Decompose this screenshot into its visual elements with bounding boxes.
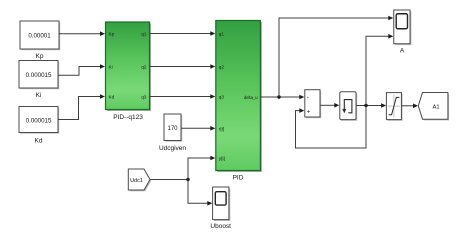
constant block Kp value 0.00001 <box>20 21 60 50</box>
svg-text:-: - <box>307 96 309 102</box>
svg-text:0.000015: 0.000015 <box>26 117 52 124</box>
svg-text:Kp: Kp <box>36 53 44 60</box>
scope Uboost <box>213 187 231 221</box>
svg-text:r[t]: r[t] <box>219 127 224 132</box>
svg-text:q1: q1 <box>141 32 147 37</box>
constant block Kd value 0.000015 <box>19 107 59 134</box>
svg-text:170: 170 <box>167 126 178 132</box>
svg-text:Ki: Ki <box>109 65 113 70</box>
constant block Udcgiven value 170 <box>164 114 182 142</box>
svg-text:A: A <box>400 48 405 55</box>
wire q1 to PID q1 input <box>150 31 216 36</box>
svg-text:Udcgiven: Udcgiven <box>159 145 186 152</box>
memory block (loop icon) <box>340 92 357 121</box>
svg-text:Kd: Kd <box>35 138 43 145</box>
from tag Udc1 <box>128 169 151 191</box>
subsystem PID--q123 <box>106 22 152 111</box>
goto tag A1 <box>418 93 449 121</box>
svg-text:Ki: Ki <box>36 92 42 99</box>
junction Udc1 node <box>186 178 189 181</box>
svg-text:q2: q2 <box>141 65 147 70</box>
svg-text:0.000015: 0.000015 <box>26 72 52 79</box>
wire memory block to saturation <box>356 103 386 108</box>
saturation block <box>386 93 402 121</box>
junction delta_u node <box>277 95 280 98</box>
svg-text:y[t]: y[t] <box>219 156 225 161</box>
svg-text:+: + <box>307 109 311 115</box>
wire junction to scope A input 2 <box>366 34 393 106</box>
svg-text:Kp: Kp <box>109 32 115 37</box>
wire Ki constant to PID--q123 Ki input <box>58 64 105 75</box>
svg-text:delta_u: delta_u <box>244 95 258 100</box>
svg-text:Uboost: Uboost <box>210 223 231 230</box>
svg-text:PID: PID <box>233 175 244 182</box>
svg-text:Kd: Kd <box>109 95 115 100</box>
subsystem PID <box>216 21 262 173</box>
wire delta_u junction to scope A input 1 <box>279 16 393 97</box>
scope A <box>394 10 412 45</box>
constant block Ki value 0.000015 <box>19 61 59 90</box>
wire Kd constant to PID--q123 Kd input <box>58 94 105 119</box>
wire saturation to goto tag A1 <box>401 104 418 109</box>
svg-text:A1: A1 <box>432 104 439 110</box>
svg-text:q3: q3 <box>219 95 225 100</box>
svg-text:0.00001: 0.00001 <box>28 32 51 39</box>
wire junction to scope Uboost <box>188 180 212 206</box>
wire q3 to PID q3 input <box>150 94 216 99</box>
svg-text:q3: q3 <box>141 95 147 100</box>
wire Udcgiven to PID r[t] input <box>181 126 215 131</box>
wire q2 to PID q2 input <box>150 64 216 69</box>
junction after memory block <box>364 104 367 107</box>
wire Kp constant to PID--q123 Kp input <box>59 31 105 36</box>
svg-text:q1: q1 <box>219 32 225 37</box>
sum block <box>305 90 321 119</box>
svg-text:q2: q2 <box>219 65 225 70</box>
wire sum output to memory block <box>320 103 339 108</box>
feedback wire junction to sum plus input <box>296 106 367 149</box>
svg-text:Udc1: Udc1 <box>130 178 143 184</box>
wire delta_u to sum minus input <box>260 95 304 100</box>
wire Udc1 to junction <box>150 179 188 181</box>
svg-text:PID--q123: PID--q123 <box>113 114 143 121</box>
wire junction to PID y[t] input <box>188 156 215 180</box>
